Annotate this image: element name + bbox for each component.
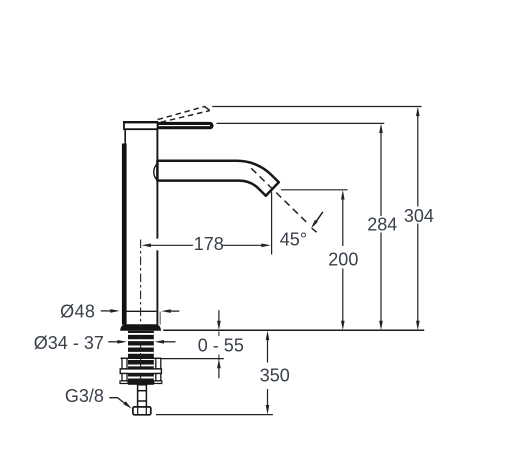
bracket lower right post bbox=[156, 374, 161, 381]
svg-text:304: 304 bbox=[404, 206, 434, 226]
hex nut G3/8 bbox=[133, 407, 151, 415]
dimension 0-55 top arrow bbox=[218, 310, 220, 321]
dimension 45 arc arrow bbox=[312, 212, 323, 232]
dimension 0-55 bottom arrow bbox=[218, 368, 220, 378]
dimension 178 line right bbox=[223, 244, 263, 246]
dimension 200 line bbox=[342, 199, 344, 321]
base ring outer edge bbox=[159, 312, 161, 325]
svg-text:178: 178 bbox=[194, 234, 224, 254]
dimension 178 arrow left bbox=[142, 244, 152, 248]
svg-text:0 - 55: 0 - 55 bbox=[198, 335, 244, 355]
bracket lower left post bbox=[122, 374, 127, 381]
dimension 350 bottom extension line bbox=[156, 414, 273, 416]
svg-text:350: 350 bbox=[260, 365, 290, 385]
body centerline bbox=[140, 240, 142, 385]
lever handle bbox=[157, 122, 214, 129]
bracket left foot bbox=[120, 381, 128, 384]
svg-text:200: 200 bbox=[328, 249, 358, 269]
dimension 0-55 bottom extension line bbox=[162, 358, 224, 360]
dimension 178 arrow right bbox=[261, 244, 271, 248]
svg-text:284: 284 bbox=[367, 214, 397, 234]
dimension 304 line bbox=[417, 116, 419, 321]
bracket right foot bbox=[154, 381, 162, 384]
body column left edge thick bbox=[122, 144, 127, 325]
svg-text:45°: 45° bbox=[280, 230, 307, 250]
dimension 178 extension line bbox=[271, 192, 273, 255]
dimension 284 extension line bbox=[217, 122, 385, 124]
mounting washer bbox=[120, 369, 161, 374]
spout-body fillet arc bbox=[154, 164, 157, 180]
svg-text:G3/8: G3/8 bbox=[65, 386, 104, 406]
dimension 200 extension line bbox=[281, 189, 348, 191]
handle cap bbox=[124, 122, 158, 129]
svg-text:Ø48: Ø48 bbox=[60, 302, 95, 322]
dimension 350 line bbox=[267, 340, 269, 406]
dimension 284 line bbox=[380, 133, 382, 321]
body column left edge thin bbox=[124, 129, 126, 144]
mounting bracket right post bbox=[156, 358, 161, 369]
deck line bbox=[163, 329, 424, 331]
spout bbox=[157, 161, 278, 196]
tailpiece tube bbox=[138, 385, 147, 407]
lever raised position dashed bbox=[158, 106, 206, 119]
dimension 304 extension line bbox=[212, 106, 421, 108]
dimension 45 dashed flow line bbox=[251, 168, 308, 224]
body joint line bbox=[127, 310, 157, 312]
mounting bracket top line bbox=[121, 357, 162, 359]
svg-text:Ø34 - 37: Ø34 - 37 bbox=[34, 333, 104, 353]
mounting bracket left post bbox=[122, 358, 127, 369]
base flare bbox=[121, 325, 161, 331]
threaded shank bbox=[128, 331, 154, 385]
dimension 178 line left bbox=[151, 244, 193, 246]
body column right edge bbox=[156, 129, 158, 324]
